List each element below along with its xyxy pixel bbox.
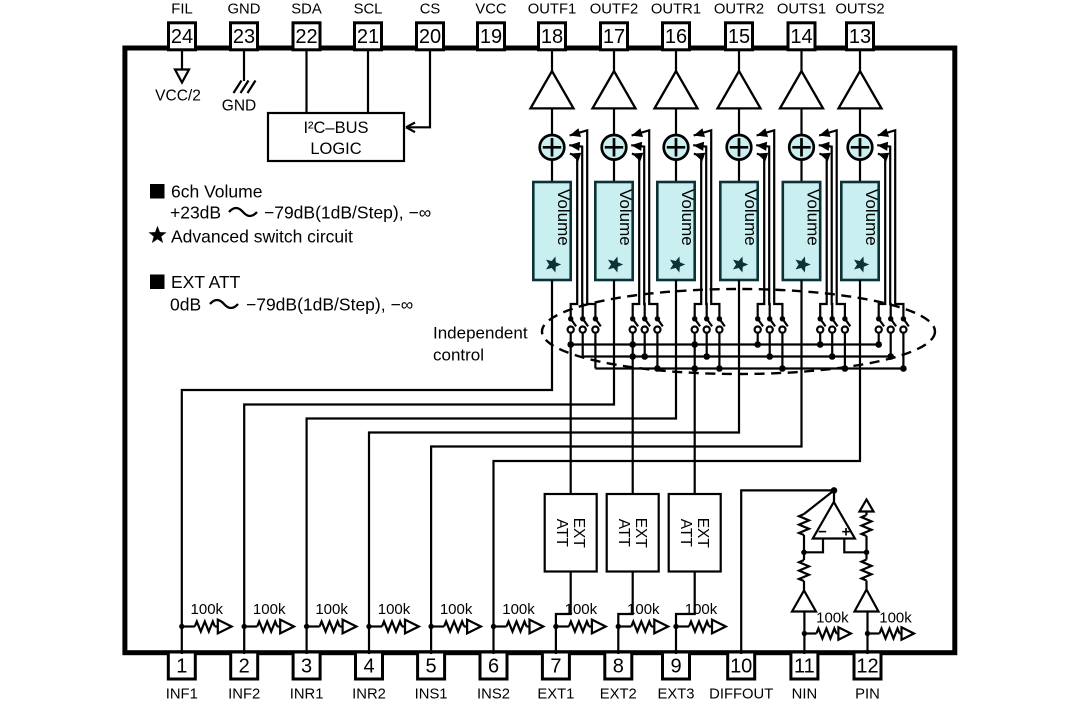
volume block VOL1 (533, 182, 573, 280)
svg-text:OUTS2: OUTS2 (835, 2, 884, 18)
svg-text:100k: 100k (565, 601, 598, 618)
wire pin 13 to amp A6 (859, 50, 861, 72)
resistor R3 (862, 515, 872, 536)
switch SW62 (888, 316, 896, 333)
pin 14 (OUTS1) top terminal (777, 2, 826, 50)
wire switch column 1 of channel 1 into summing node (570, 154, 577, 319)
resistor 100k with buffer on pin 6 (491, 601, 544, 633)
svg-text:I²C–BUS: I²C–BUS (303, 119, 368, 137)
svg-text:1: 1 (176, 656, 187, 678)
svg-text:5: 5 (426, 656, 437, 678)
svg-text:8: 8 (613, 656, 624, 678)
wire switch 41 to bus 1 (757, 333, 759, 345)
wire volume 2 output to input pin 2 (staircase) (244, 280, 614, 654)
wire switch 43 to bus 3 (781, 333, 783, 369)
wire switch 33 to bus 3 (718, 333, 720, 369)
wire pin 18 to amp A1 (551, 50, 553, 72)
svg-text:−79dB(1dB/Step), −∞: −79dB(1dB/Step), −∞ (264, 203, 431, 223)
pin 13 (OUTS2) top terminal (835, 2, 884, 50)
switch SW41 (755, 316, 763, 333)
switch SW33 (716, 316, 724, 333)
pin 22 (SDA) top terminal (291, 2, 322, 50)
output amp A6 (839, 71, 882, 108)
svg-text:3: 3 (301, 656, 312, 678)
independent control dashed ellipse (542, 289, 935, 374)
wire amp A2 to summing node (613, 108, 615, 136)
summing node S1 (540, 135, 565, 160)
wire switch column 3 of channel 1 into summing node (570, 130, 596, 318)
pin 16 (OUTR1) top terminal (651, 2, 701, 50)
wire switch to bus / EXT ATT riser 1 (570, 333, 572, 494)
svg-text:6ch Volume: 6ch Volume (171, 182, 262, 202)
svg-text:EXT: EXT (694, 518, 711, 549)
wire switch 32 to bus 2 (706, 333, 708, 357)
svg-text:22: 22 (295, 26, 317, 48)
wire switch column 2 of channel 2 into summing node (631, 145, 645, 319)
wire R1 to minus node (803, 535, 805, 560)
svg-text:Volume: Volume (741, 189, 760, 246)
svg-text:PIN: PIN (855, 687, 880, 701)
feature note: advanced switch circuit (149, 226, 354, 247)
wire pin 17 to amp A2 (613, 50, 615, 72)
resistor 100k with buffer on pin 2 (242, 601, 295, 633)
svg-text:INR1: INR1 (290, 687, 324, 701)
wire summing node to volume block 6 (859, 160, 861, 182)
switch SW42 (767, 316, 775, 333)
wire buffer B12 to pin 12 (866, 612, 868, 655)
wire switch column 2 of channel 1 into summing node (569, 145, 583, 319)
wire amp A1 to summing node (551, 108, 553, 136)
wire switch column 2 of channel 4 into summing node (756, 145, 770, 319)
switch SW11 (568, 316, 576, 333)
resistor 100k with buffer on pin 3 (304, 601, 357, 633)
switch SW43 (779, 316, 787, 333)
resistor 100k with buffer on pin 1 (179, 601, 232, 633)
wire switch 22 to bus 2 (644, 333, 646, 357)
wire switch 12 to bus 2 (582, 333, 584, 357)
svg-text:SDA: SDA (291, 2, 322, 18)
svg-text:FIL: FIL (171, 2, 192, 18)
switch SW23 (654, 316, 662, 333)
resistor 100k with buffer on pin 7 (553, 601, 606, 633)
svg-text:control: control (433, 346, 484, 365)
pin 1 (INF1) bottom terminal (166, 652, 198, 703)
wire switch column 1 of channel 2 into summing node (632, 154, 639, 319)
wire switch 42 to bus 2 (769, 333, 771, 357)
I2C-BUS LOGIC block U1 (268, 113, 404, 161)
summing node S4 (727, 135, 752, 160)
svg-text:100k: 100k (378, 601, 411, 618)
svg-text:+: + (842, 524, 851, 541)
EXT ATT block 1 (545, 494, 597, 572)
svg-text:17: 17 (603, 26, 625, 48)
svg-text:20: 20 (419, 26, 441, 48)
svg-text:Independent: Independent (433, 324, 528, 343)
junction dots channel 6 (875, 341, 906, 372)
pin 18 (OUTF1) top terminal (528, 2, 577, 50)
svg-text:100k: 100k (816, 610, 849, 627)
volume block VOL4 (720, 182, 760, 280)
svg-text:EXT: EXT (632, 518, 649, 549)
summing node S3 (664, 135, 689, 160)
feature note: ext att range (170, 295, 413, 315)
svg-text:13: 13 (849, 26, 871, 48)
wire summing node to volume block 5 (800, 160, 802, 182)
plus node dot (864, 550, 870, 556)
wire summing node to volume block 1 (551, 160, 553, 182)
EXT1 bus line (571, 343, 879, 345)
svg-text:OUTF2: OUTF2 (590, 2, 639, 18)
wire volume 3 output to input pin 3 (staircase) (307, 280, 676, 654)
junction dots channel 2 (629, 341, 660, 372)
svg-text:ATT: ATT (553, 519, 570, 548)
svg-text:LOGIC: LOGIC (310, 140, 361, 158)
pin 3 (INR1) bottom terminal (290, 652, 324, 703)
switch SW63 (900, 316, 908, 333)
summing node S6 (848, 135, 873, 160)
svg-text:DIFFOUT: DIFFOUT (709, 687, 773, 701)
wire switch to bus / EXT ATT riser 2 (632, 333, 634, 494)
wire EXT ATT 2 to pin 8 (618, 572, 632, 655)
wire pin 16 to amp A3 (675, 50, 677, 72)
junction dots channel 4 (754, 341, 785, 372)
wire pin 23 to ground symbol (243, 50, 245, 81)
switch SW22 (642, 316, 650, 333)
wire switch column 3 of channel 5 into summing node (819, 130, 845, 318)
EXT ATT block 3 (669, 494, 721, 572)
pin 17 (OUTF2) top terminal (590, 2, 639, 50)
wire volume 6 output to input pin 6 (staircase) (494, 280, 861, 654)
svg-text:100k: 100k (685, 601, 718, 618)
svg-text:100k: 100k (253, 601, 286, 618)
svg-text:6: 6 (488, 656, 499, 678)
svg-text:VCC: VCC (475, 2, 507, 18)
volume block VOL2 (595, 182, 635, 280)
switch SW12 (580, 316, 588, 333)
wire switch 61 to bus 1 (878, 333, 880, 345)
switch SW31 (692, 316, 700, 333)
switch SW53 (842, 316, 850, 333)
svg-text:GND: GND (222, 98, 256, 115)
svg-text:ATT: ATT (677, 519, 694, 548)
svg-text:100k: 100k (315, 601, 348, 618)
wire switch column 1 of channel 3 into summing node (694, 154, 701, 319)
pin 11 (NIN) bottom terminal (791, 652, 818, 703)
output amp A2 (593, 71, 636, 108)
svg-text:2: 2 (239, 656, 250, 678)
svg-text:16: 16 (665, 26, 687, 48)
svg-text:100k: 100k (440, 601, 473, 618)
svg-text:+23dB: +23dB (170, 203, 221, 223)
pin 24 (FIL) top terminal (169, 2, 196, 50)
pin 21 (SCL) top terminal (354, 2, 383, 50)
wire switch 53 to bus 3 (844, 333, 846, 369)
wire switch to bus / EXT ATT riser 3 (694, 333, 696, 494)
label: Independent control (433, 324, 528, 365)
summing node S2 (602, 135, 627, 160)
wire pin 24 FIL to VCC/2 arrow (181, 50, 183, 70)
svg-text:SCL: SCL (354, 2, 383, 18)
wire switch column 2 of channel 6 into summing node (877, 145, 891, 319)
buffer amp B11 (792, 591, 816, 612)
feature note: 6ch Volume (150, 182, 262, 202)
resistor 100k with buffer on pin 9 (673, 601, 726, 633)
svg-text:21: 21 (357, 26, 379, 48)
wire op-amp plus input (844, 539, 866, 553)
EXT ATT block 2 (607, 494, 659, 572)
switch SW61 (876, 316, 884, 333)
output amp A3 (655, 71, 698, 108)
wire switch column 1 of channel 6 into summing node (878, 154, 885, 319)
wire volume 1 output to input pin 1 (staircase) (182, 280, 552, 654)
wire R3 to plus node (865, 536, 867, 560)
svg-text:CS: CS (420, 2, 441, 18)
feedback wire op-amp output to R1 (804, 490, 834, 514)
svg-text:EXT ATT: EXT ATT (171, 272, 241, 292)
wire switch column 3 of channel 3 into summing node (694, 130, 720, 318)
wire pin 22 SDA to logic (305, 50, 307, 113)
switch SW32 (704, 316, 712, 333)
pin 23 (GND) top terminal (228, 2, 261, 50)
svg-text:100k: 100k (502, 601, 535, 618)
svg-text:12: 12 (856, 656, 878, 678)
wire switch column 3 of channel 4 into summing node (757, 130, 783, 318)
wire switch 23 to bus 3 (656, 333, 658, 369)
wire buffer B11 to pin 11 (803, 612, 805, 655)
output amp A5 (780, 71, 823, 108)
wire DIFFOUT pin 10 to op-amp output (741, 490, 834, 654)
switch SW51 (817, 316, 825, 333)
EXT3 bus line (595, 367, 903, 369)
svg-text:EXT1: EXT1 (537, 687, 574, 701)
wire switch column 1 of channel 5 into summing node (819, 154, 826, 319)
VCC/2 reference arrow (155, 70, 201, 105)
svg-text:18: 18 (541, 26, 563, 48)
svg-text:INF2: INF2 (228, 687, 260, 701)
switch SW21 (630, 316, 638, 333)
wire pin 20 CS to logic with arrow (406, 50, 430, 132)
pin 4 (INR2) bottom terminal (352, 652, 386, 703)
svg-text:15: 15 (728, 26, 750, 48)
wire switch 52 to bus 2 (831, 333, 833, 357)
pin 5 (INS1) bottom terminal (415, 652, 448, 703)
resistor R1 feedback (799, 514, 809, 535)
svg-text:100k: 100k (627, 601, 660, 618)
svg-text:Advanced switch circuit: Advanced switch circuit (171, 227, 353, 247)
svg-text:23: 23 (233, 26, 255, 48)
wire summing node to volume block 4 (738, 160, 740, 182)
svg-text:INR2: INR2 (352, 687, 386, 701)
wire switch 63 to bus 3 (902, 333, 904, 369)
wire ref arrow to R3 (865, 512, 867, 516)
wire switch column 3 of channel 2 into summing node (632, 130, 658, 318)
wire switch column 2 of channel 3 into summing node (693, 145, 707, 319)
volume block VOL5 (783, 182, 823, 280)
svg-text:−79dB(1dB/Step), −∞: −79dB(1dB/Step), −∞ (246, 295, 413, 315)
ground symbol GND (222, 81, 256, 115)
op-amp U2 (813, 490, 855, 540)
resistor R2 NIN input (799, 560, 809, 581)
switch SW13 (592, 316, 600, 333)
svg-text:OUTS1: OUTS1 (777, 2, 826, 18)
EXT2 bus line (583, 355, 891, 357)
output amp A1 (531, 71, 574, 108)
junction dots channel 5 (817, 341, 848, 372)
resistor 100k with buffer on pin 5 (428, 601, 481, 633)
wire amp A3 to summing node (675, 108, 677, 136)
output amp A4 (718, 71, 761, 108)
IC body outline (125, 48, 955, 653)
buffer amp B12 (855, 590, 879, 612)
pin 15 (OUTR2) top terminal (714, 2, 764, 50)
switch SW52 (829, 316, 837, 333)
svg-text:OUTF1: OUTF1 (528, 2, 577, 18)
wire summing node to volume block 3 (675, 160, 677, 182)
pin 9 (EXT3) bottom terminal (657, 652, 694, 703)
resistor 100k with buffer on pin 8 (616, 601, 669, 633)
svg-text:11: 11 (794, 656, 815, 678)
wire op-amp minus input (804, 539, 823, 553)
wire amp A6 to summing node (859, 108, 861, 136)
svg-text:14: 14 (790, 26, 812, 48)
wire volume 5 output to input pin 5 (staircase) (431, 280, 801, 654)
svg-text:NIN: NIN (792, 687, 817, 701)
svg-text:24: 24 (171, 26, 193, 48)
svg-text:Volume: Volume (804, 189, 823, 246)
summing node S5 (789, 135, 814, 160)
svg-text:100k: 100k (191, 601, 224, 618)
svg-text:INS2: INS2 (477, 687, 510, 701)
wire summing node to volume block 2 (613, 160, 615, 182)
svg-text:EXT2: EXT2 (600, 687, 637, 701)
feature note: EXT ATT (150, 272, 241, 292)
wire switch 62 to bus 2 (890, 333, 892, 357)
svg-text:INS1: INS1 (415, 687, 448, 701)
wire switch 13 to bus 3 (594, 333, 596, 369)
resistor 100k with buffer on pin 12 (865, 610, 914, 640)
wire pin 15 to amp A4 (738, 50, 740, 72)
resistor 100k with buffer on pin 11 (802, 610, 851, 640)
wire switch column 2 of channel 5 into summing node (819, 145, 833, 319)
svg-text:OUTR1: OUTR1 (651, 2, 701, 18)
svg-text:EXT: EXT (570, 518, 587, 549)
wire switch 51 to bus 1 (819, 333, 821, 345)
pin 6 (INS2) bottom terminal (477, 652, 510, 703)
wire R2 to buffer B11 (803, 581, 805, 591)
VCC/2 reference arrow at op-amp (860, 500, 874, 512)
svg-text:INF1: INF1 (166, 687, 198, 701)
op-amp output node (831, 487, 838, 494)
wire pin 21 SCL to logic (367, 50, 369, 113)
svg-text:VCC/2: VCC/2 (155, 88, 201, 105)
svg-text:Volume: Volume (616, 189, 635, 246)
svg-text:19: 19 (480, 26, 502, 48)
pin 19 (VCC) top terminal (475, 2, 507, 50)
junction dots channel 3 (691, 341, 722, 372)
svg-text:−: − (818, 524, 827, 541)
pin 2 (INF2) bottom terminal (228, 652, 260, 703)
pin 20 (CS) top terminal (417, 2, 444, 50)
wire amp A5 to summing node (800, 108, 802, 136)
wire volume 4 output to input pin 4 (staircase) (369, 280, 739, 654)
wire pin 14 to amp A5 (800, 50, 802, 72)
junction dots channel 1 (567, 341, 574, 348)
volume block VOL6 (841, 182, 881, 280)
svg-text:OUTR2: OUTR2 (714, 2, 764, 18)
resistor 100k with buffer on pin 4 (366, 601, 419, 633)
wire amp A4 to summing node (738, 108, 740, 136)
wire EXT ATT 3 to pin 9 (676, 572, 695, 655)
wire R4 to buffer B12 (865, 581, 867, 590)
svg-text:ATT: ATT (615, 519, 632, 548)
volume block VOL3 (657, 182, 697, 280)
resistor R4 PIN input (862, 560, 872, 581)
pin 12 (PIN) bottom terminal (854, 652, 881, 703)
svg-text:EXT3: EXT3 (657, 687, 694, 701)
svg-text:7: 7 (550, 656, 561, 678)
pin 10 (DIFFOUT) bottom terminal (709, 652, 773, 703)
svg-text:100k: 100k (879, 610, 912, 627)
minus node dot (801, 550, 807, 556)
wire switch column 3 of channel 6 into summing node (878, 130, 904, 318)
pin 8 (EXT2) bottom terminal (600, 652, 637, 703)
feature note: volume range (170, 203, 431, 223)
svg-text:4: 4 (363, 656, 374, 678)
svg-text:10: 10 (730, 656, 752, 678)
svg-text:0dB: 0dB (170, 295, 201, 315)
svg-text:Volume: Volume (554, 189, 573, 246)
pin 7 (EXT1) bottom terminal (537, 652, 574, 703)
wire switch column 1 of channel 4 into summing node (757, 154, 764, 319)
svg-text:9: 9 (670, 656, 681, 678)
svg-text:Volume: Volume (678, 189, 697, 246)
svg-text:Volume: Volume (862, 189, 881, 246)
svg-text:GND: GND (228, 2, 261, 18)
wire EXT ATT 1 to pin 7 (556, 572, 571, 655)
